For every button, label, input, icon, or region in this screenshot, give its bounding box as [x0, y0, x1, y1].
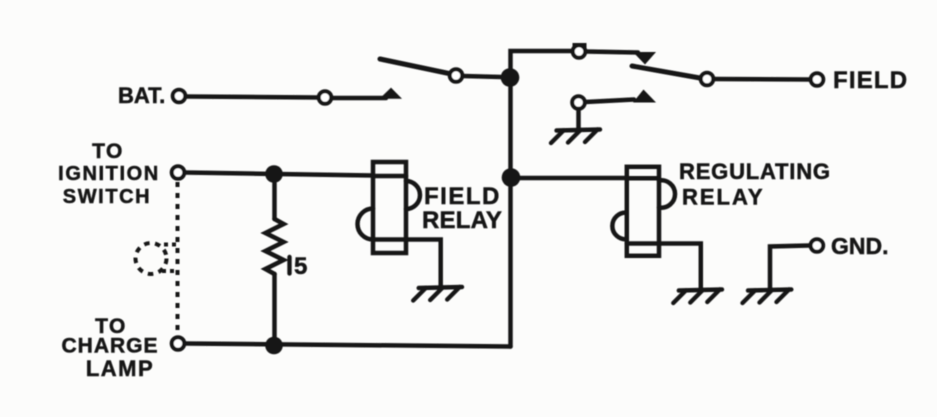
- svg-text:TO: TO: [92, 140, 124, 163]
- svg-text:5: 5: [294, 253, 307, 280]
- svg-text:IGNITION: IGNITION: [58, 163, 160, 185]
- svg-text:FIELD: FIELD: [833, 67, 908, 94]
- svg-text:FIELD: FIELD: [424, 183, 501, 210]
- svg-text:REGULATING: REGULATING: [679, 159, 831, 184]
- svg-text:CHARGE: CHARGE: [61, 335, 158, 358]
- svg-text:SWITCH: SWITCH: [63, 186, 151, 208]
- svg-text:GND.: GND.: [831, 233, 889, 259]
- svg-text:RELAY: RELAY: [682, 185, 765, 210]
- svg-text:BAT.: BAT.: [118, 83, 165, 108]
- svg-text:RELAY: RELAY: [422, 207, 502, 234]
- svg-text:LAMP: LAMP: [86, 356, 154, 381]
